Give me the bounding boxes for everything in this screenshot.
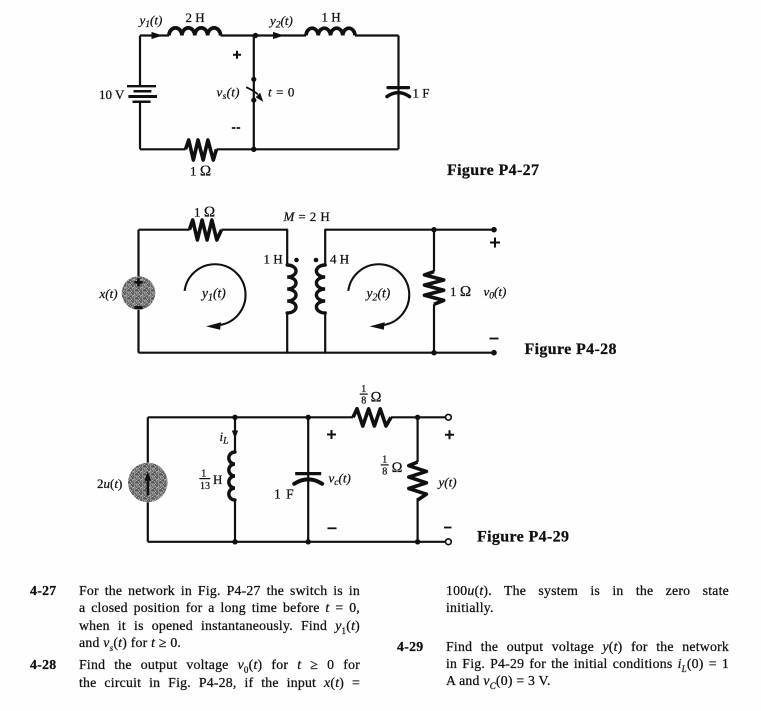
polarity dot (primary) <box>294 258 299 263</box>
inductor 1H primary <box>287 230 296 353</box>
current arrow y2(t) <box>268 13 293 39</box>
battery 10V <box>127 86 157 102</box>
wire: C1 top rail <box>140 34 399 36</box>
svg-text:v0(t): v0(t) <box>484 284 507 302</box>
svg-text:y1(t): y1(t) <box>200 286 226 304</box>
svg-text:2u(t): 2u(t) <box>97 476 122 491</box>
label 1 H <box>322 10 341 25</box>
node: C2 top junction <box>431 227 436 232</box>
problem text 4-29 <box>397 638 424 655</box>
wire: C2 top rail right loop <box>325 229 494 231</box>
label 1/8 ohm (top) <box>360 384 382 407</box>
label 1/8 ohm (right) <box>381 455 403 478</box>
label + (y) <box>445 430 454 439</box>
svg-text:iL: iL <box>220 429 229 447</box>
terminal bottom (C3 open) <box>446 539 452 545</box>
label 1 ohm (C2 top) <box>194 205 215 221</box>
node: C3 bottom-L junction <box>232 539 237 544</box>
label - (vs) <box>232 127 240 129</box>
label t = 0 <box>268 84 295 99</box>
svg-text:1 F: 1 F <box>274 487 295 502</box>
node: C3 out bottom junction <box>415 539 420 544</box>
node: C3 top-L junction <box>232 415 237 420</box>
terminal top (C3 open) <box>446 414 452 420</box>
wire: C2 output branch <box>433 230 435 353</box>
resistor 1ohm (C1 bottom) <box>186 140 217 160</box>
label 1 ohm (C1) <box>190 164 211 180</box>
label - (vc) <box>328 527 337 529</box>
wire: C1 left branch <box>139 36 141 150</box>
label + (vs) <box>233 51 241 59</box>
resistor 1/8 ohm (C3 right) <box>409 462 427 500</box>
polarity dot (secondary) <box>314 258 319 263</box>
inductor 1/13 H <box>229 417 235 542</box>
label - (v0) <box>490 338 499 340</box>
capacitor 1F (C3) <box>294 417 322 542</box>
label + (vc) <box>327 430 336 439</box>
label 2 H <box>186 10 205 25</box>
svg-text:vs(t): vs(t) <box>217 84 240 102</box>
problem text 4-27 <box>30 582 57 599</box>
svg-text:y(t): y(t) <box>437 474 457 489</box>
label y(t) <box>437 474 457 489</box>
svg-text:8: 8 <box>361 396 366 407</box>
wire: C2 bottom rail <box>139 352 495 354</box>
source x(t) <box>122 276 156 310</box>
node: C3 cap top junction <box>306 415 311 420</box>
label M = 2 H <box>283 209 331 224</box>
svg-text:1 Ω: 1 Ω <box>450 284 471 300</box>
label + (v0) <box>490 238 500 248</box>
svg-text:2 H: 2 H <box>186 10 205 25</box>
inductor 1H <box>306 28 355 35</box>
svg-text:1: 1 <box>382 455 387 466</box>
wire: C3 output branch <box>417 417 419 542</box>
svg-text:1 Ω: 1 Ω <box>194 205 215 221</box>
resistor 1ohm (C2 right) <box>425 272 444 305</box>
caption Figure P4-28 <box>525 341 617 358</box>
current arrow iL <box>220 429 239 447</box>
svg-text:8: 8 <box>382 466 387 477</box>
resistor 1/8 ohm (C3 top) <box>353 409 391 426</box>
caption Figure P4-29 <box>477 529 569 546</box>
node: C3 cap bottom junction <box>306 539 311 544</box>
svg-text:10 V: 10 V <box>99 87 125 102</box>
svg-text:H: H <box>213 472 222 487</box>
label 1/13 H <box>199 468 222 492</box>
svg-text:vc(t): vc(t) <box>329 471 351 489</box>
inductor 4H secondary <box>316 230 325 353</box>
node: C3 out top junction <box>415 415 420 420</box>
label 1 F (C3) <box>274 487 295 502</box>
terminal bottom (C2) <box>491 350 497 356</box>
inductor 2H <box>169 28 221 36</box>
source 2u(t) <box>128 463 168 503</box>
resistor 1ohm (C2 top) <box>190 220 222 240</box>
label 1 H (primary) <box>264 252 283 267</box>
label 2u(t) <box>97 476 122 491</box>
svg-text:13: 13 <box>200 481 210 492</box>
wire: C1 right branch <box>397 36 399 150</box>
label x(t) <box>99 286 118 301</box>
terminal top (C2) <box>491 227 497 233</box>
svg-text:x(t): x(t) <box>99 286 118 301</box>
mesh arrow y1(t) <box>185 264 246 329</box>
svg-text:4 H: 4 H <box>330 252 349 267</box>
mesh arrow y2(t) <box>348 264 409 329</box>
svg-text:1 H: 1 H <box>322 10 341 25</box>
svg-text:Figure P4-27: Figure P4-27 <box>447 162 539 179</box>
svg-text:1: 1 <box>361 384 366 395</box>
wire: C2 left branch <box>137 230 139 353</box>
svg-text:y1(t): y1(t) <box>138 13 163 31</box>
svg-text:Ω: Ω <box>392 460 403 476</box>
current arrow y1(t) <box>138 13 163 40</box>
svg-text:1 H: 1 H <box>264 252 283 267</box>
problem text 4-28 <box>30 656 57 673</box>
label vs(t) <box>217 84 240 102</box>
wire: C3 bottom rail <box>148 541 446 543</box>
wire: C3 top rail <box>148 416 446 418</box>
svg-text:1: 1 <box>201 468 206 479</box>
svg-text:y2(t): y2(t) <box>268 13 293 31</box>
svg-text:Figure P4-29: Figure P4-29 <box>477 529 569 546</box>
label v0(t) <box>484 284 507 302</box>
node: C2 bottom junction <box>431 350 436 355</box>
svg-text:y2(t): y2(t) <box>365 286 391 304</box>
svg-text:M = 2 H: M = 2 H <box>283 209 331 224</box>
label 1 ohm (C2 right) <box>450 284 471 300</box>
svg-text:1 Ω: 1 Ω <box>190 164 211 180</box>
label 10 V <box>99 87 125 102</box>
node: bottom junction <box>251 147 256 152</box>
capacitor 1F <box>387 88 410 97</box>
caption Figure P4-27 <box>447 162 539 179</box>
wire: C2 top rail left loop <box>139 229 288 231</box>
label vc(t) <box>329 471 351 489</box>
switch t=0 <box>246 77 263 103</box>
label - (y) <box>444 527 452 529</box>
wire: C1 switch branch <box>253 36 255 150</box>
svg-text:Figure P4-28: Figure P4-28 <box>525 341 617 358</box>
label 1 F <box>413 86 430 101</box>
wire: C1 bottom rail <box>140 148 399 150</box>
svg-text:t = 0: t = 0 <box>268 84 295 99</box>
wire: C3 left branch <box>147 417 149 542</box>
svg-text:1 F: 1 F <box>413 86 430 101</box>
svg-text:Ω: Ω <box>371 390 382 406</box>
problem text 4-28 continuation <box>446 582 729 599</box>
node: top junction <box>253 33 258 38</box>
label 4 H (secondary) <box>330 252 349 267</box>
